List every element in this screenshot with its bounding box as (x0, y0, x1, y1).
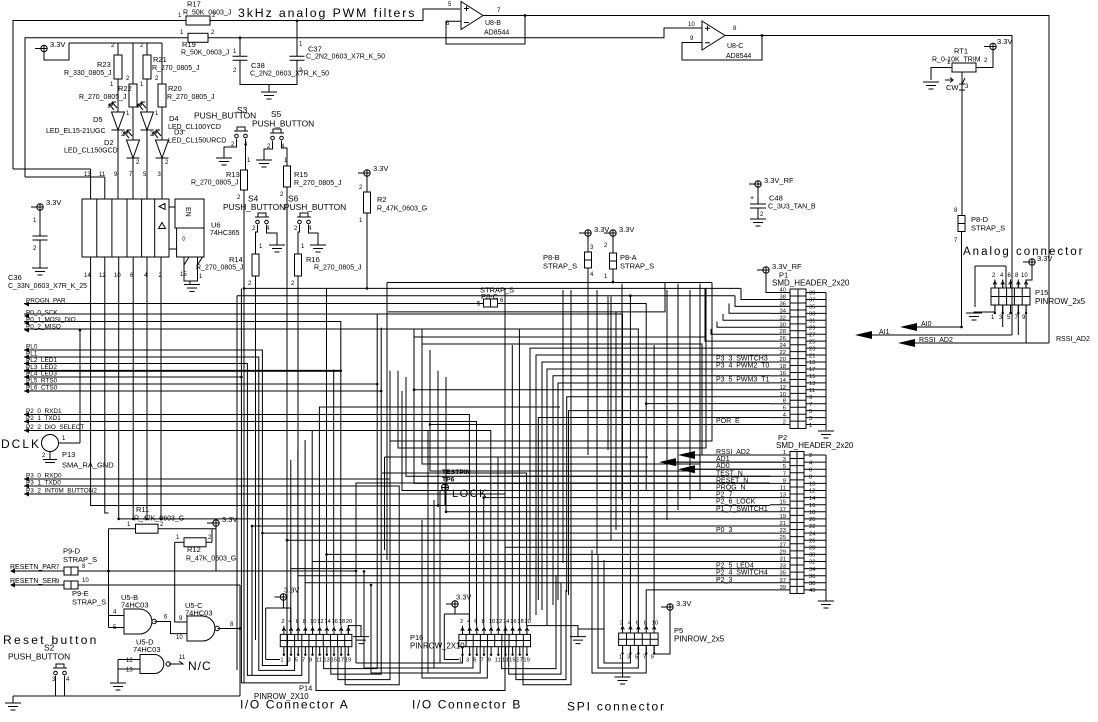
svg-text:5: 5 (448, 2, 452, 8)
svg-text:5: 5 (635, 655, 638, 661)
svg-text:5: 5 (809, 409, 812, 415)
svg-text:21: 21 (809, 353, 815, 359)
power 3.3V_RF (C48) (755, 181, 761, 187)
wire (705, 288, 770, 341)
svg-text:19: 19 (809, 360, 815, 366)
wire U8-B feedback (446, 16, 525, 45)
net arrow AI0 (900, 323, 917, 331)
junction (380, 390, 383, 393)
svg-text:AD8544: AD8544 (484, 30, 509, 37)
svg-text:2: 2 (233, 68, 237, 74)
svg-text:7: 7 (480, 658, 483, 664)
svg-text:7: 7 (56, 565, 60, 571)
svg-text:32: 32 (780, 315, 786, 321)
junction (146, 518, 149, 521)
svg-text:16: 16 (809, 503, 815, 509)
svg-text:R_330_0805_J: R_330_0805_J (64, 70, 112, 77)
net arrow AD1 (P2) (659, 458, 676, 466)
svg-text:3: 3 (590, 245, 594, 251)
svg-text:9: 9 (1022, 315, 1026, 321)
svg-text:STRAP_S: STRAP_S (971, 224, 1005, 233)
resistor R12 (175, 541, 184, 543)
wire PL1 (24, 357, 295, 670)
svg-text:EN: EN (184, 207, 191, 217)
svg-text:SPI connector: SPI connector (567, 700, 666, 714)
svg-text:2: 2 (809, 453, 812, 459)
wire (327, 553, 771, 555)
svg-text:30: 30 (809, 553, 815, 559)
wire P3_2_INT0M_BUTTON2 (24, 494, 505, 691)
junction (332, 370, 335, 373)
wire U5-B out (155, 622, 188, 634)
svg-text:D5: D5 (93, 115, 103, 124)
svg-text:PL2_LED1: PL2_LED1 (26, 357, 57, 364)
wire TP6 to P2_6_LOCK (444, 491, 446, 506)
wire S5 right leg (282, 141, 288, 166)
svg-text:R13: R13 (226, 170, 240, 179)
svg-text:R_47K_0603_G: R_47K_0603_G (377, 206, 427, 213)
svg-text:15: 15 (809, 374, 815, 380)
ground U5-D inputs (110, 683, 126, 690)
svg-text:2: 2 (280, 192, 284, 198)
junction (240, 376, 243, 379)
svg-text:24: 24 (809, 531, 816, 537)
wire PL4_LED3 (24, 377, 309, 683)
svg-text:38: 38 (809, 581, 815, 587)
svg-text:2: 2 (992, 273, 996, 279)
junction (296, 20, 299, 23)
svg-text:N/C: N/C (188, 659, 212, 673)
svg-text:36: 36 (809, 574, 815, 580)
wire (398, 288, 706, 448)
wire U8-C output (725, 36, 1012, 336)
strap P9-E (64, 581, 71, 589)
wire (437, 371, 439, 506)
junction (286, 539, 289, 542)
svg-text:6: 6 (809, 467, 812, 473)
RT1 CW arrow (945, 78, 953, 83)
svg-text:LED_CL150GCD: LED_CL150GCD (64, 148, 118, 155)
svg-text:STRAP_S: STRAP_S (620, 262, 654, 271)
wire (430, 404, 770, 600)
wire P3_0_RXD0 (24, 479, 390, 680)
LED D5 (112, 112, 125, 130)
wire P16 pin20 to ground (527, 626, 578, 637)
svg-text:1: 1 (280, 658, 283, 664)
svg-text:1: 1 (809, 423, 812, 429)
svg-text:PINROW_2x5: PINROW_2x5 (1035, 297, 1086, 306)
svg-text:4: 4 (66, 677, 70, 683)
wire (356, 647, 463, 663)
wire (414, 329, 770, 483)
svg-text:R_270_0805_J: R_270_0805_J (152, 65, 200, 72)
svg-text:STRAP_S: STRAP_S (543, 262, 577, 271)
svg-text:RSSI_AD2: RSSI_AD2 (1056, 336, 1090, 343)
svg-text:PUSH_BUTTON: PUSH_BUTTON (194, 111, 256, 121)
wire RESET to P16 (355, 571, 357, 663)
svg-text:C_3U3_TAN_B: C_3U3_TAN_B (768, 204, 816, 211)
wire U5-D out N/C (169, 661, 183, 664)
svg-text:15: 15 (780, 500, 786, 506)
svg-text:17: 17 (809, 367, 815, 373)
svg-text:13: 13 (323, 658, 329, 664)
wire (646, 345, 770, 627)
svg-text:R_270_0805_J: R_270_0805_J (191, 180, 239, 187)
P1 right stubs and ground rail (806, 293, 826, 431)
svg-text:1: 1 (33, 218, 37, 224)
svg-text:P2_1_TXD1: P2_1_TXD1 (26, 415, 61, 422)
svg-text:9: 9 (309, 658, 312, 664)
svg-text:AD8544: AD8544 (726, 53, 751, 60)
svg-text:16: 16 (332, 619, 338, 625)
svg-text:2: 2 (294, 226, 298, 232)
svg-text:6: 6 (1008, 273, 1012, 279)
capacitor C37 (296, 21, 298, 57)
svg-text:R19: R19 (182, 40, 196, 49)
svg-text:4: 4 (113, 610, 117, 616)
svg-text:1: 1 (176, 535, 180, 541)
svg-text:P0_0_SCK: P0_0_SCK (26, 310, 58, 317)
ground P1 (818, 431, 834, 438)
svg-text:10: 10 (310, 619, 316, 625)
wire 3.3V to P16 pin1 (444, 607, 469, 659)
ground C36 (32, 268, 48, 275)
svg-text:1: 1 (359, 218, 363, 224)
svg-text:7: 7 (497, 8, 501, 14)
svg-text:27: 27 (809, 332, 815, 338)
U6 EN box (175, 199, 204, 228)
svg-text:4: 4 (809, 460, 813, 466)
ground for C37 C38 (268, 85, 270, 93)
svg-text:2: 2 (33, 246, 37, 252)
svg-text:6: 6 (296, 619, 299, 625)
svg-text:32: 32 (809, 560, 815, 566)
wire R11 node (108, 529, 110, 628)
capacitor C36 (39, 210, 41, 236)
wire PROGN_PAR / PROG_N (24, 304, 770, 491)
wire 3.3V_RF to P1 pin40 (766, 273, 790, 292)
svg-text:7: 7 (954, 238, 958, 244)
svg-text:SMD_HEADER_2x20: SMD_HEADER_2x20 (772, 279, 850, 288)
svg-text:I/O Connector B: I/O Connector B (412, 698, 522, 712)
svg-text:37: 37 (780, 578, 786, 584)
svg-text:3: 3 (466, 658, 469, 664)
svg-text:29: 29 (780, 549, 786, 555)
wire (390, 283, 712, 442)
junction (160, 518, 163, 521)
svg-text:14: 14 (809, 496, 816, 502)
svg-text:R12: R12 (187, 545, 201, 554)
header P2 SMD_HEADER_2x20 body (790, 452, 804, 594)
wire (729, 288, 770, 313)
svg-text:2: 2 (208, 535, 212, 541)
svg-text:10: 10 (809, 482, 815, 488)
net arrow RSSI_AD2 (P2) (678, 451, 695, 459)
svg-text:3.3V: 3.3V (619, 225, 634, 234)
svg-text:6: 6 (474, 619, 477, 625)
wire (386, 457, 498, 626)
svg-text:8: 8 (230, 622, 234, 628)
svg-text:C48: C48 (769, 194, 783, 203)
wire RESETN_PAR to logic (78, 483, 770, 571)
wire PL2_LED1 (24, 364, 302, 676)
svg-text:20: 20 (780, 357, 786, 363)
svg-text:R_50K_0603_J: R_50K_0603_J (181, 50, 229, 57)
svg-text:8: 8 (82, 564, 86, 570)
wire (518, 329, 520, 626)
wire RT1 wiper (959, 72, 965, 216)
connector P14 PINROW_2X10 (280, 634, 352, 646)
P2 left pin stubs (770, 455, 790, 590)
wire (382, 473, 527, 626)
svg-text:PUSH_BUTTON: PUSH_BUTTON (8, 652, 70, 662)
svg-text:19: 19 (345, 658, 351, 664)
svg-text:2: 2 (160, 522, 164, 528)
svg-text:74HC365: 74HC365 (210, 230, 240, 237)
wire (371, 585, 480, 673)
svg-text:1: 1 (126, 111, 130, 117)
svg-text:2: 2 (984, 58, 988, 64)
svg-text:2: 2 (211, 30, 215, 36)
wire P5 pin1 to ground (622, 645, 624, 677)
power 3.3V (LED rail) (41, 45, 47, 51)
svg-text:14: 14 (503, 619, 510, 625)
power 3.3V (P5) (667, 604, 673, 610)
svg-text:9: 9 (783, 478, 786, 484)
svg-text:12: 12 (809, 489, 815, 495)
svg-text:26: 26 (780, 336, 786, 342)
svg-text:3.3V: 3.3V (50, 40, 65, 49)
capacitor C48 (757, 187, 759, 204)
svg-text:2: 2 (126, 76, 130, 82)
wire S4 left leg (256, 225, 258, 254)
svg-text:R_0-10K_TRIM: R_0-10K_TRIM (932, 57, 981, 64)
svg-text:PUSH_BUTTON: PUSH_BUTTON (284, 202, 346, 212)
resistor R13 (241, 170, 248, 190)
svg-text:1: 1 (991, 315, 995, 321)
svg-text:R_270_0805_J: R_270_0805_J (167, 94, 215, 101)
power 3.3V (P15) (1029, 259, 1035, 265)
svg-text:19: 19 (780, 514, 786, 520)
svg-text:10: 10 (652, 621, 658, 627)
wire (147, 257, 161, 519)
svg-text:R_270_0805_J: R_270_0805_J (294, 180, 342, 187)
svg-text:P3_3_SWITCH3: P3_3_SWITCH3 (716, 356, 768, 363)
wire P0_1_MOSI_DIO (24, 322, 341, 626)
wire (439, 490, 441, 663)
svg-text:RT1: RT1 (954, 47, 968, 56)
svg-text:35: 35 (809, 305, 815, 311)
wire P3_1_TXD0 (24, 486, 399, 685)
svg-text:P3_2_INT0M_BUTTON2: P3_2_INT0M_BUTTON2 (26, 488, 97, 495)
connector P16 PINROW_2X10 (459, 634, 531, 646)
U6 top pins (91, 169, 105, 199)
svg-text:1: 1 (62, 436, 66, 442)
svg-text:3: 3 (627, 655, 630, 661)
svg-text:3.3V_RF: 3.3V_RF (764, 176, 794, 185)
svg-text:37: 37 (809, 298, 815, 304)
svg-text:23: 23 (780, 528, 786, 534)
ground C48 (750, 219, 766, 226)
junction (429, 423, 432, 426)
svg-text:2: 2 (359, 185, 363, 191)
svg-text:10: 10 (82, 578, 89, 584)
wire PL6_CTS0 (24, 328, 381, 674)
power 3.3V (C36) (37, 204, 43, 210)
svg-text:18: 18 (517, 619, 523, 625)
svg-text:3.3V: 3.3V (997, 37, 1012, 46)
svg-text:P3_1_TXD0: P3_1_TXD0 (26, 480, 61, 487)
svg-text:9: 9 (809, 395, 812, 401)
wire (237, 283, 387, 671)
svg-text:P3_0_RXD0: P3_0_RXD0 (26, 473, 62, 480)
wire (252, 526, 770, 675)
svg-text:R_270_0805_J: R_270_0805_J (79, 94, 127, 101)
svg-text:1: 1 (110, 82, 114, 88)
resistor R17 (186, 16, 210, 25)
resistor R16 (295, 254, 302, 276)
svg-text:17: 17 (780, 507, 786, 513)
svg-text:3: 3 (288, 658, 291, 664)
junction (251, 525, 254, 528)
svg-text:1: 1 (127, 522, 131, 528)
wire U6 pin14 to P2_6_LOCK (91, 257, 770, 506)
svg-text:D2: D2 (104, 138, 114, 147)
svg-text:2: 2 (281, 619, 284, 625)
junction (243, 287, 246, 290)
svg-text:POR_E: POR_E (716, 418, 740, 425)
svg-text:P2_0_RXD1: P2_0_RXD1 (26, 408, 62, 415)
svg-text:R2: R2 (377, 195, 387, 204)
svg-text:8: 8 (733, 26, 737, 32)
svg-text:34: 34 (780, 308, 787, 314)
U6 box stubs (169, 207, 177, 249)
svg-text:PINROW_2X10: PINROW_2X10 (410, 642, 465, 651)
svg-text:3.3V: 3.3V (676, 599, 691, 608)
svg-text:2: 2 (165, 160, 169, 166)
svg-text:7: 7 (783, 471, 786, 477)
svg-text:5: 5 (143, 172, 147, 178)
wire P0_2_MISO (24, 329, 638, 633)
wire P2_0_RXD1 (24, 415, 469, 626)
svg-text:7: 7 (129, 172, 133, 178)
wire U8-C feedback (682, 36, 762, 61)
svg-text:P2_2_DIO_SELECT: P2_2_DIO_SELECT (26, 424, 84, 431)
wire (422, 520, 487, 678)
svg-text:16: 16 (510, 619, 516, 625)
wire RESETN_PAR riser (355, 483, 357, 571)
svg-text:40: 40 (780, 288, 786, 294)
svg-text:10: 10 (688, 22, 695, 28)
svg-text:STRAP_S: STRAP_S (72, 598, 106, 607)
svg-text:13: 13 (809, 381, 815, 387)
resistor R14 (252, 254, 259, 276)
svg-text:1: 1 (247, 158, 251, 164)
wire P0_0_SCK (24, 314, 623, 633)
svg-text:C38: C38 (251, 61, 265, 70)
svg-text:LED_EL15-21UGC: LED_EL15-21UGC (46, 128, 106, 135)
svg-text:13: 13 (780, 493, 786, 499)
svg-text:I/O Connector A: I/O Connector A (240, 698, 349, 712)
P15 pin stubs (995, 280, 1026, 312)
svg-text:R14: R14 (229, 255, 243, 264)
junction (355, 570, 358, 573)
svg-text:3: 3 (965, 84, 969, 90)
wire P15 to AI nets (1003, 312, 1026, 343)
svg-text:2: 2 (252, 226, 256, 232)
wire S5 left leg to ground (264, 141, 273, 160)
svg-text:5: 5 (1007, 315, 1011, 321)
svg-text:2: 2 (460, 619, 463, 625)
svg-text:3.3V: 3.3V (284, 586, 299, 595)
svg-text:9: 9 (56, 579, 60, 585)
junction (960, 326, 963, 329)
svg-text:1: 1 (619, 655, 622, 661)
svg-text:PUSH_BUTTON: PUSH_BUTTON (223, 202, 285, 212)
push-button S2 (53, 664, 67, 668)
svg-text:8: 8 (954, 208, 958, 214)
svg-text:P2_6_LOCK: P2_6_LOCK (716, 499, 756, 506)
svg-text:5: 5 (473, 658, 476, 664)
svg-text:CW: CW (946, 83, 959, 92)
svg-text:12: 12 (317, 619, 323, 625)
svg-text:30: 30 (780, 322, 786, 328)
buffer U6 74HC365 body (82, 199, 169, 257)
node PWM1 wire (pin13 to R17 to U8-B) (13, 9, 460, 169)
wire (502, 576, 556, 669)
power 3.3V (R11 R12) (213, 520, 219, 526)
svg-text:8: 8 (481, 619, 484, 625)
resistor R2 (366, 176, 368, 192)
wire P5 left ground (578, 628, 596, 630)
svg-text:R23: R23 (97, 60, 111, 69)
wire (484, 498, 770, 626)
resistor R19 (188, 33, 208, 42)
header P1 SMD_HEADER_2x20 body (790, 289, 806, 429)
svg-text:10: 10 (114, 273, 121, 279)
wire (598, 555, 638, 668)
svg-text:SMD_HEADER_2x20: SMD_HEADER_2x20 (776, 441, 854, 450)
P1 left pin stubs (770, 293, 790, 425)
svg-text:C_33N_0603_X7R_K_25: C_33N_0603_X7R_K_25 (8, 283, 87, 290)
svg-text:R20: R20 (168, 84, 182, 93)
svg-text:RESETN_SER: RESETN_SER (10, 578, 57, 585)
svg-text:20: 20 (346, 619, 352, 625)
wire RT1 pin2 to 3.3V (976, 50, 993, 68)
svg-text:33: 33 (780, 564, 786, 570)
svg-text:LED_CL150URCD: LED_CL150URCD (168, 138, 226, 145)
svg-text:1: 1 (178, 13, 182, 19)
svg-text:5: 5 (295, 658, 298, 664)
svg-text:2: 2 (140, 43, 144, 49)
svg-text:28: 28 (780, 329, 786, 335)
svg-text:29: 29 (809, 325, 815, 331)
svg-text:2: 2 (237, 195, 241, 201)
svg-text:PINROW_2x5: PINROW_2x5 (674, 635, 725, 644)
svg-text:R_47K_0603_G: R_47K_0603_G (186, 556, 236, 563)
svg-text:34: 34 (809, 567, 816, 573)
wire P2_1_TXD1 (24, 422, 477, 626)
wire (291, 431, 312, 583)
svg-text:C_2N2_0603_X7R_K_50: C_2N2_0603_X7R_K_50 (306, 54, 385, 61)
svg-text:27: 27 (780, 542, 786, 548)
svg-text:21: 21 (780, 521, 786, 527)
svg-text:2: 2 (111, 43, 115, 49)
svg-text:2: 2 (136, 160, 140, 166)
wire (364, 571, 473, 668)
svg-text:P13: P13 (62, 450, 75, 459)
wire (319, 407, 560, 626)
